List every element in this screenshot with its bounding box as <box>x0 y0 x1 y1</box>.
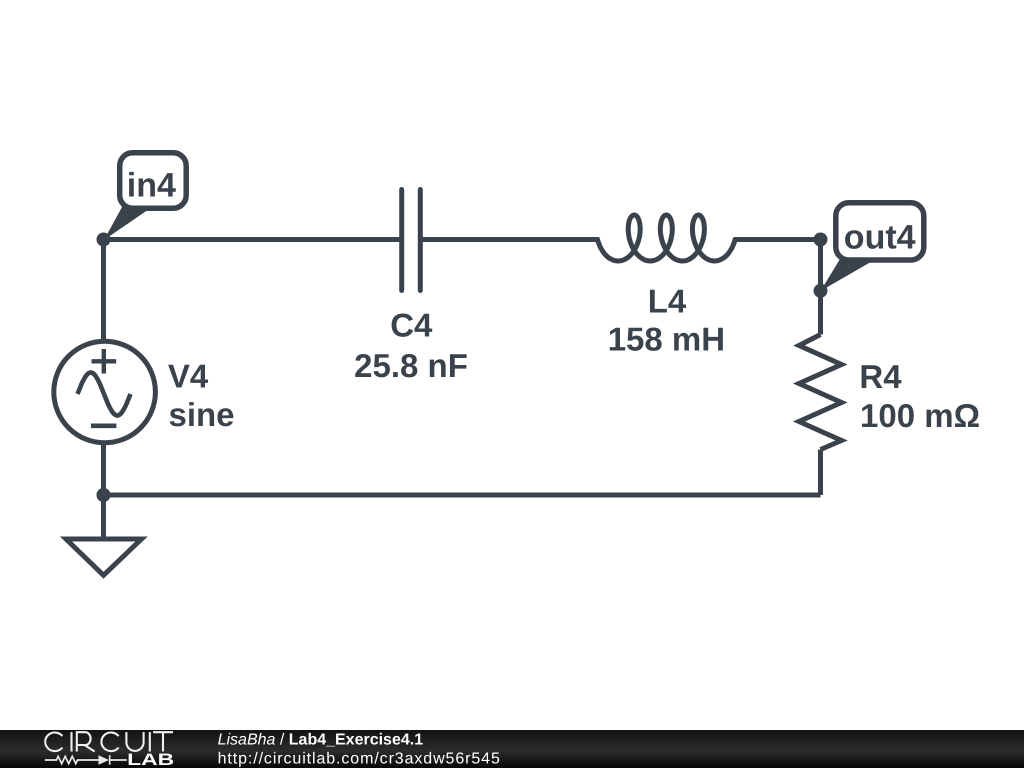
flag out4 tail <box>821 259 877 291</box>
wire: ground stem <box>101 493 106 539</box>
flag out4 bubble <box>836 203 924 260</box>
node B dot (out4 net, top) <box>814 233 828 247</box>
capacitor C4 plates <box>402 190 421 291</box>
node C dot (out4 flag anchor) <box>814 284 828 298</box>
svg-text:http://circuitlab.com/cr3axdw5: http://circuitlab.com/cr3axdw56r545 <box>218 751 501 768</box>
flag in4 bubble <box>120 153 187 209</box>
voltage source V4 circle <box>54 341 156 443</box>
V4 minus sign <box>91 423 116 428</box>
flag in4 tail <box>104 207 152 240</box>
node A dot (in4 net) <box>97 233 111 247</box>
bottom-left node dot <box>97 488 111 502</box>
logo resistor-diode squiggle <box>45 755 127 765</box>
wire: R4 bottom to bottom rail <box>818 450 823 496</box>
inductor L4 coil <box>597 215 735 261</box>
logo CIRCUIT letters <box>45 732 173 751</box>
V4 sine waveform <box>78 373 131 416</box>
footer bar <box>0 730 1024 768</box>
wire: top rail right segment (L4 to node B) <box>734 237 821 242</box>
wire: top rail left segment (node A to C4 left plate) <box>104 237 402 242</box>
svg-text:LisaBha / Lab4_Exercise4.1: LisaBha / Lab4_Exercise4.1 <box>218 732 424 749</box>
wire: right rail vertical (node B to R4 top) <box>818 237 823 335</box>
wire: bottom rail <box>104 493 821 498</box>
wire: top rail middle segment (C4 right plate to L4) <box>420 237 599 242</box>
svg-text:LAB: LAB <box>127 750 174 768</box>
ground symbol triangle <box>66 539 142 575</box>
logo diode triangle <box>99 755 110 765</box>
wire: V4 bottom to bottom node <box>101 442 106 498</box>
resistor R4 zigzag <box>799 335 842 450</box>
wire: left rail vertical (node A down to V4 top) <box>101 237 106 343</box>
V4 plus sign <box>92 349 117 374</box>
